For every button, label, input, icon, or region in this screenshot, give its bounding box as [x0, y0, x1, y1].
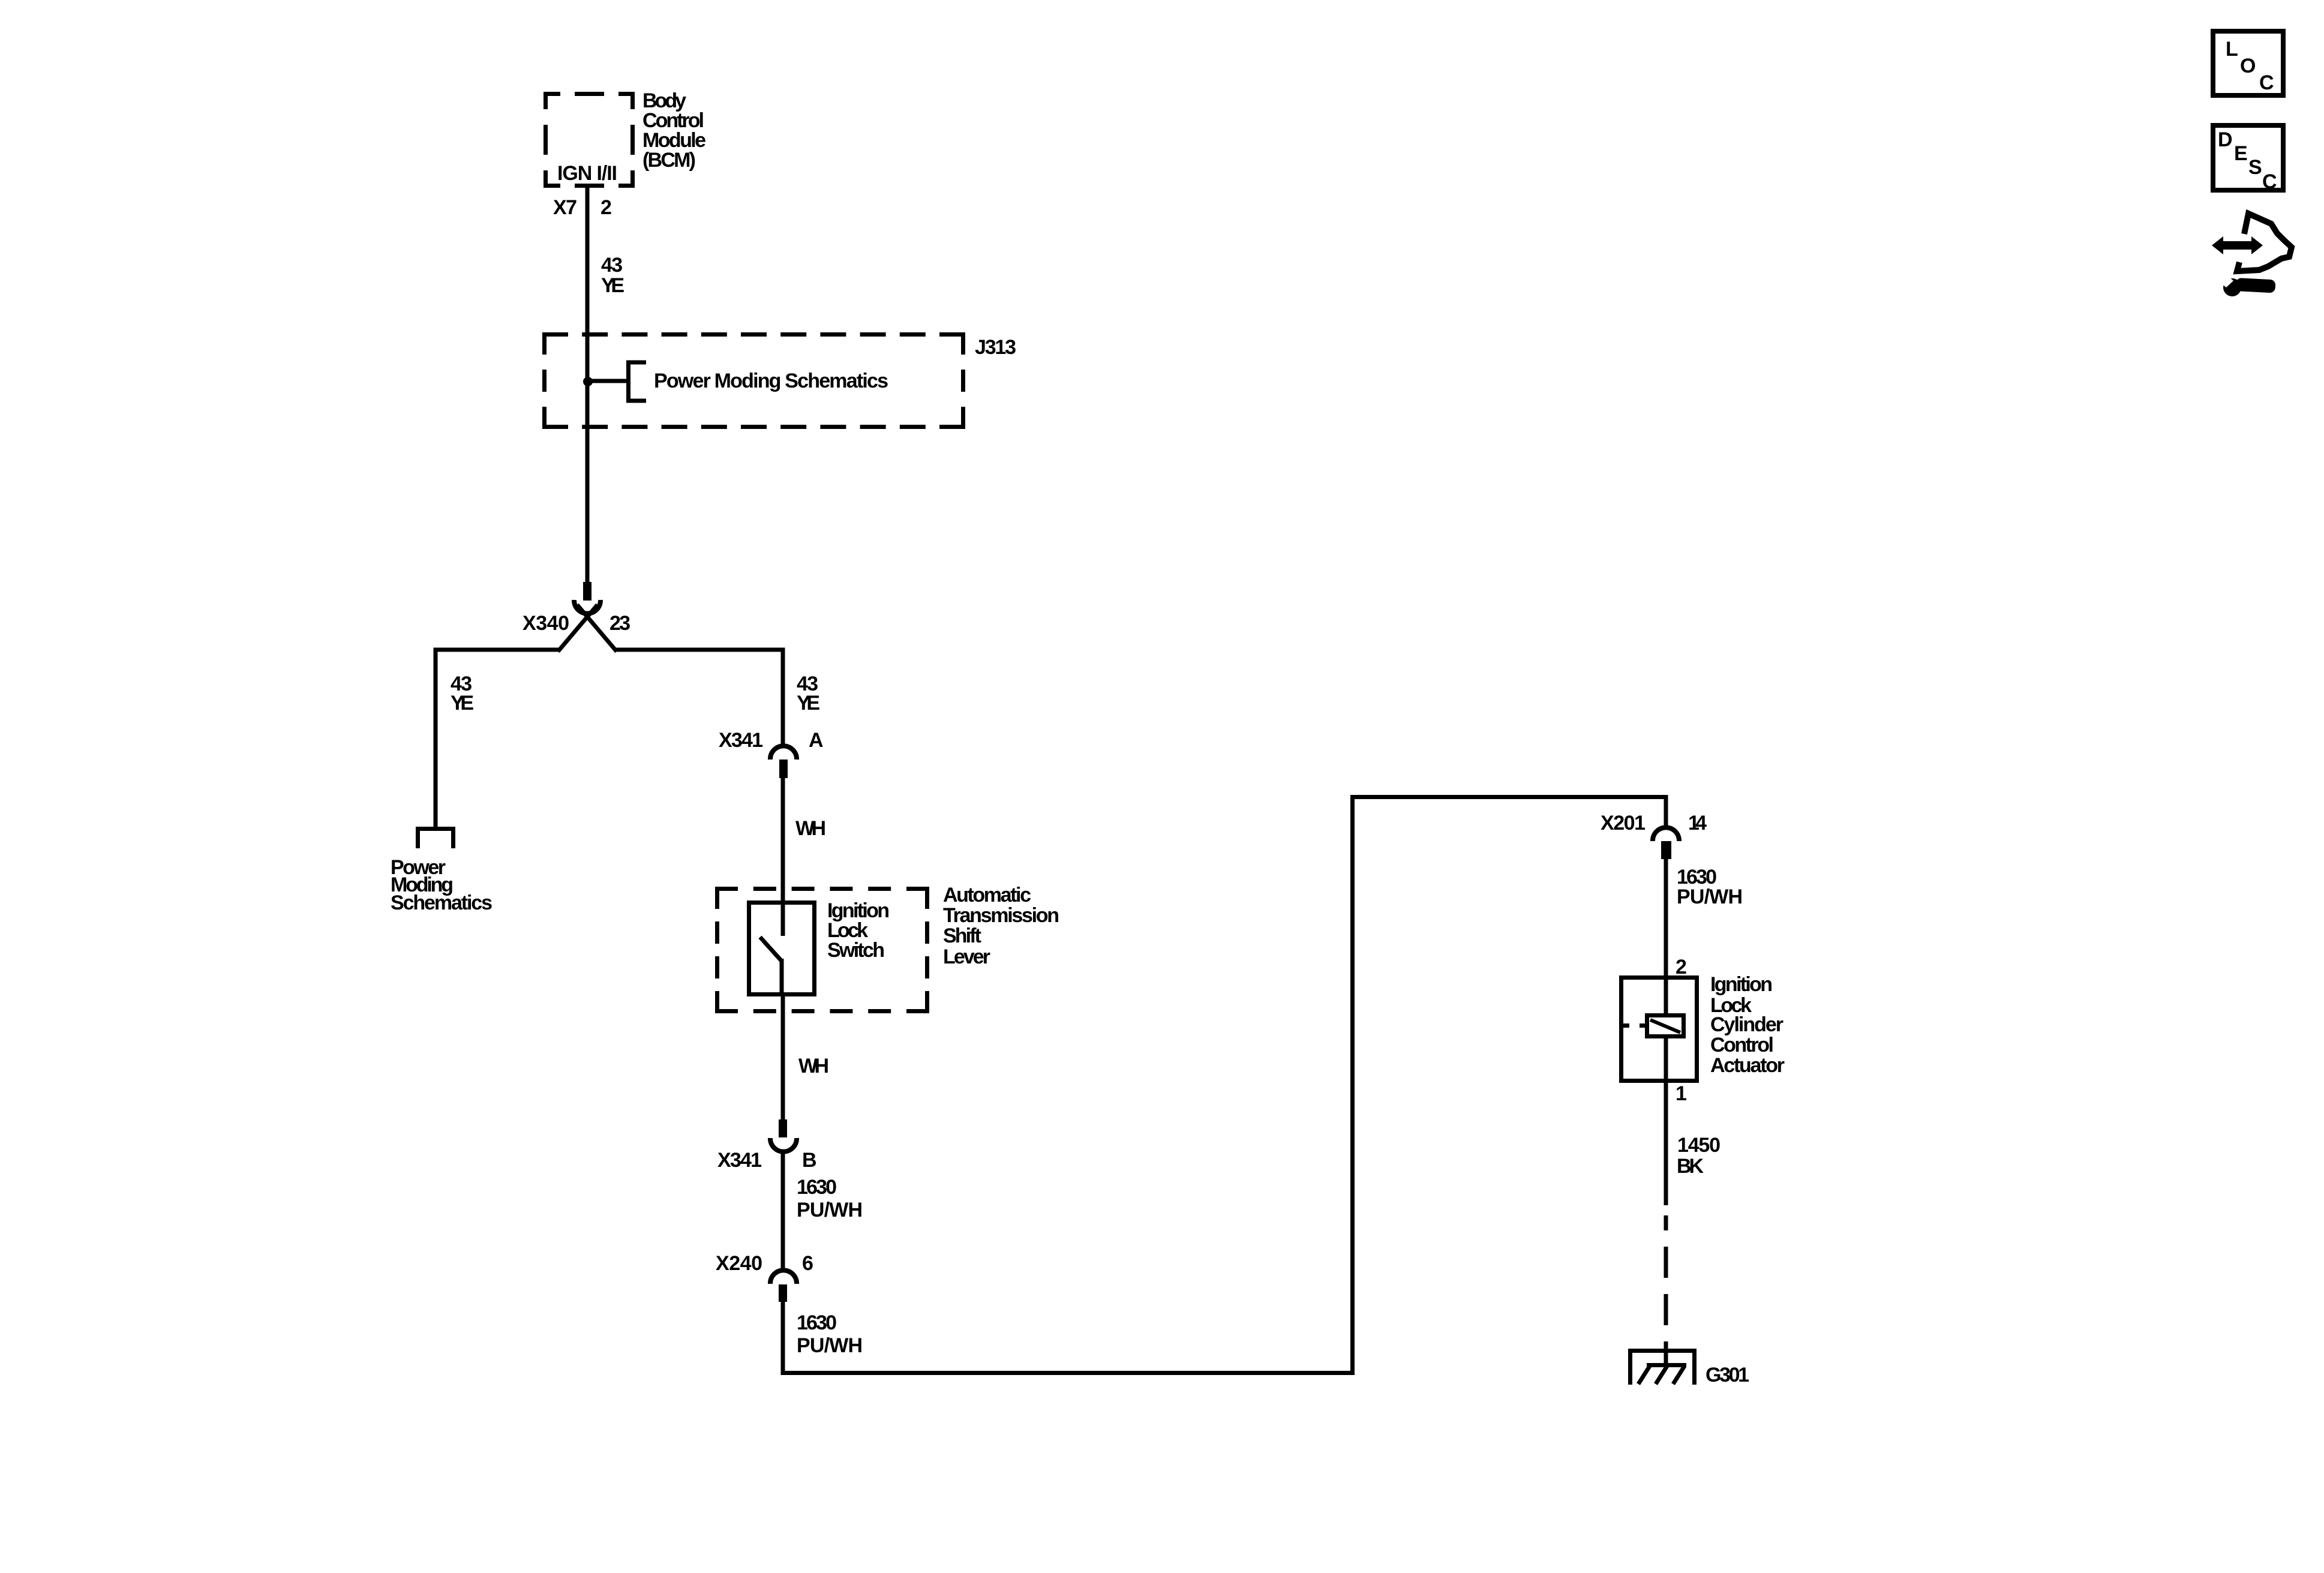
- svg-text:O: O: [2240, 55, 2256, 77]
- svg-text:6: 6: [802, 1252, 813, 1275]
- svg-text:23: 23: [609, 612, 630, 635]
- svg-text:A: A: [809, 729, 824, 752]
- svg-text:G301: G301: [1706, 1364, 1749, 1386]
- svg-text:Schematics: Schematics: [391, 891, 493, 914]
- svg-text:Transmission: Transmission: [943, 904, 1059, 927]
- svg-text:Automatic: Automatic: [943, 884, 1031, 906]
- svg-text:C: C: [2262, 170, 2277, 193]
- svg-text:IGN I/II: IGN I/II: [557, 162, 617, 185]
- svg-text:BK: BK: [1677, 1155, 1704, 1178]
- svg-text:1450: 1450: [1677, 1134, 1721, 1157]
- svg-text:YE: YE: [601, 274, 624, 297]
- svg-text:X341: X341: [719, 729, 763, 752]
- svg-text:1630: 1630: [797, 1311, 837, 1334]
- svg-text:PU/WH: PU/WH: [797, 1199, 863, 1221]
- svg-text:(BCM): (BCM): [642, 149, 696, 172]
- svg-text:S: S: [2248, 156, 2262, 179]
- svg-text:2: 2: [1676, 956, 1687, 978]
- svg-text:X201: X201: [1601, 812, 1646, 834]
- svg-text:YE: YE: [451, 692, 474, 715]
- svg-text:X7: X7: [553, 196, 577, 219]
- svg-text:B: B: [802, 1149, 817, 1172]
- svg-text:X341: X341: [717, 1149, 762, 1172]
- svg-text:E: E: [2234, 142, 2248, 165]
- svg-text:Control: Control: [1710, 1034, 1774, 1056]
- svg-text:WH: WH: [798, 1055, 829, 1077]
- svg-text:43: 43: [601, 254, 623, 277]
- svg-text:Switch: Switch: [827, 939, 885, 962]
- svg-text:2: 2: [600, 196, 612, 219]
- svg-text:D: D: [2218, 128, 2233, 151]
- svg-text:Cylinder: Cylinder: [1710, 1013, 1783, 1036]
- svg-text:WH: WH: [795, 817, 826, 840]
- svg-text:Actuator: Actuator: [1710, 1054, 1785, 1077]
- svg-text:L: L: [2226, 38, 2238, 61]
- svg-text:X340: X340: [523, 612, 569, 635]
- svg-text:Ignition: Ignition: [1710, 973, 1773, 996]
- svg-text:1: 1: [1676, 1082, 1687, 1105]
- svg-text:Shift: Shift: [943, 924, 981, 947]
- svg-text:C: C: [2259, 71, 2274, 94]
- svg-text:PU/WH: PU/WH: [1677, 885, 1743, 908]
- svg-text:Power Moding Schematics: Power Moding Schematics: [654, 370, 888, 392]
- svg-text:PU/WH: PU/WH: [797, 1334, 863, 1357]
- svg-text:X240: X240: [716, 1252, 762, 1275]
- svg-text:J313: J313: [975, 336, 1016, 359]
- svg-text:1630: 1630: [797, 1176, 837, 1199]
- svg-text:YE: YE: [797, 692, 820, 715]
- svg-text:Lever: Lever: [943, 945, 990, 968]
- svg-text:14: 14: [1688, 812, 1707, 834]
